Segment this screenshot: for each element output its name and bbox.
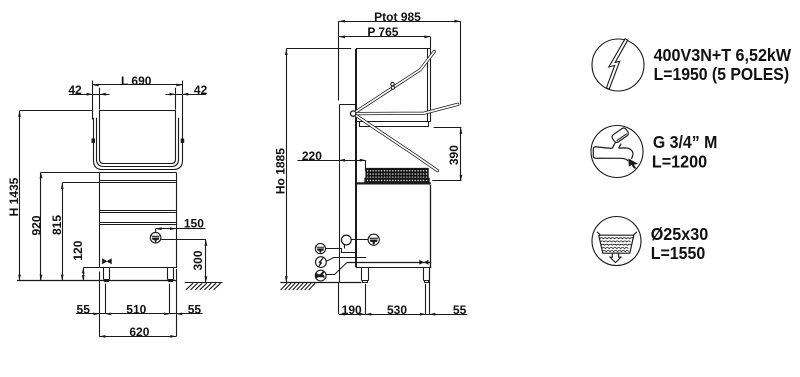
panel band line 3 [99,222,176,224]
hood front edge (side) [430,49,432,122]
bottom ext line body left [99,272,101,337]
dim Ho 1885 tick [286,48,351,50]
electric leader line [326,258,366,262]
faucet handle [611,127,629,144]
svg-text:920: 920 [29,215,43,235]
drain marker icon (left column) [315,244,325,254]
svg-text:L=1950 (5 POLES): L=1950 (5 POLES) [654,64,790,84]
hood bottom lip [360,122,429,127]
dim 390 tick bottom [432,180,461,182]
leg side rear [362,268,369,283]
water leader line [326,263,347,275]
drain basin waves [600,238,634,252]
hood pivot pin right [181,139,185,143]
counter band [356,182,431,184]
svg-text:55: 55 [77,302,91,316]
dim 815 line [62,183,64,281]
water supply icon circle [591,126,643,178]
ground hatch side [281,283,316,290]
drain icon leader line [161,239,206,241]
ext line front (Ptot) [460,21,462,104]
panel band line 1 [99,210,176,212]
electric supply icon circle [592,39,644,91]
faucet neck [612,143,621,149]
svg-text:510: 510 [126,302,146,316]
dim 120 line [83,268,85,281]
tank front wall [430,185,432,267]
drain leader stepped line [326,249,357,253]
dim 190/530/55 line [339,314,467,316]
svg-text:Ptot 985: Ptot 985 [374,10,421,24]
dim L 690 line [93,84,183,86]
815 reference line [62,182,176,184]
ground line side [280,282,361,284]
dim 920 line [40,172,42,280]
dim 55/510/55 line [76,313,202,315]
ext line outer left 42 [92,81,94,120]
hood bottom (side) [356,121,430,123]
svg-text:120: 120 [71,240,85,260]
rod connector bolts [391,82,394,85]
rear pipe ext below ground [338,282,340,314]
bottom ext line body right [176,269,178,337]
ext line rear (Ptot) [338,21,340,100]
lightning bolt [606,39,627,89]
dim 300 line [205,240,207,283]
dim 150 line [156,228,206,230]
dim 620 line [99,336,176,338]
ground hatch segment right of front view [185,283,223,290]
leg front right [168,268,174,282]
drain connection open circle [341,235,351,245]
svg-text:G 3/4” M: G 3/4” M [653,132,718,152]
svg-text:55: 55 [453,303,467,317]
svg-text:530: 530 [387,303,407,317]
water drop arrow [628,158,638,168]
bottom ext front leg [425,284,427,314]
svg-text:L 690: L 690 [121,74,152,88]
dim 390 line [460,128,462,181]
dim 42 left line [69,94,110,96]
dim Ho 1885 line [286,49,288,282]
svg-text:Ho 1885: Ho 1885 [274,148,288,194]
hood handle rod upper [353,52,434,114]
rear pipe vertical [339,105,341,283]
hood pivot pin left [92,139,96,143]
svg-text:L=1200: L=1200 [652,151,707,171]
basket (dish rack) [366,168,428,178]
svg-text:150: 150 [184,217,204,231]
faucet body [593,147,633,161]
dim 42 right line [166,94,206,96]
hood handle U-frame inner [97,118,179,167]
svg-text:H 1435: H 1435 [7,177,21,216]
ext line hood front (P765) [430,37,432,49]
drain marker icon (in machine) [368,234,379,245]
dim 220 drop [365,160,367,171]
hood top (side) [356,48,430,50]
hood handle rod middle [353,104,458,113]
dim 120 tick [83,267,103,269]
dim H 1435 tick [20,110,94,112]
svg-text:42: 42 [194,83,208,97]
drain link line [351,239,368,241]
bottom ext line leg right [169,284,171,315]
water marker icon [315,270,326,281]
hood handle rod lower [353,114,437,171]
dim Ptot 985 line [339,21,460,23]
bottom ext front wall [429,269,431,314]
svg-text:815: 815 [50,215,64,235]
svg-text:620: 620 [129,325,149,339]
panel band line 4 [99,224,176,226]
drain basin [597,232,637,253]
svg-text:55: 55 [188,302,202,316]
svg-text:L=1550: L=1550 [651,243,706,263]
bottom ext line leg left [105,284,107,315]
drain connection icon front [150,232,161,243]
hood front inner line [427,49,429,122]
ext line hood right [175,88,177,110]
water valve bowtie front [102,258,112,264]
dim H 1435 line [19,111,21,281]
svg-text:Ø25x30: Ø25x30 [651,224,709,244]
machine rim line (and 920 reference tick) [41,172,176,174]
leg side front [424,268,430,283]
hood body [100,111,176,164]
body bottom (side) [356,267,431,269]
bottom ext rear leg [365,284,367,314]
leg front left [104,268,110,282]
electric marker icon [316,257,327,268]
drain arrow [610,253,621,262]
panel band line 2 [99,212,176,214]
svg-text:400V3N+T 6,52kW: 400V3N+T 6,52kW [654,45,792,65]
bottom plate with water line [347,262,432,264]
svg-text:190: 190 [342,303,362,317]
drain circle stem [344,245,346,249]
water valve bowtie side [419,260,428,265]
ext line outer right 42 [182,81,184,120]
dim 390 tick top [434,127,462,129]
rear pipe cap [339,104,356,106]
svg-text:P 765: P 765 [367,25,398,39]
door top line [99,180,176,182]
ground line front [17,280,176,282]
dim P 765 line [339,36,430,38]
dim 220 line [298,160,366,162]
svg-text:42: 42 [68,83,82,97]
svg-text:390: 390 [447,145,461,165]
rod pivot joint [351,111,356,116]
svg-text:300: 300 [191,250,205,270]
drain icon circle [592,217,641,266]
machine body front view [100,173,177,268]
rear wall [355,49,357,267]
ext line hood left [99,88,101,110]
svg-text:220: 220 [302,149,322,163]
hood handle U-frame outer [94,118,183,170]
